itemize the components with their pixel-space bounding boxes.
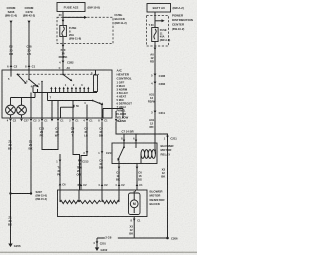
wire label Z1 20 BK left [8, 140, 12, 151]
wire label F20 14 RD/BK [59, 48, 68, 59]
relay name [161, 144, 175, 156]
node BATT A0 feed box [147, 4, 184, 13]
connector C211 pin 3 right [151, 111, 165, 115]
mode switch linkage (dashed) [18, 73, 99, 75]
bottom pin row of control box [7, 119, 122, 123]
wire pin4 to resistor block [81, 122, 88, 191]
wire into fuse 8 [59, 12, 88, 26]
wire to vacuum harness A [56, 154, 66, 190]
ground G206 [8, 244, 21, 248]
relay bottom pins [115, 164, 143, 191]
mode contact bus [33, 86, 97, 101]
resistor R3 [102, 190, 119, 204]
connector C211 row mid [83, 151, 113, 155]
wire label Z1 20 BK mid [29, 140, 33, 151]
interior sub box [103, 109, 123, 119]
illumination lamp L2 [17, 105, 27, 118]
wire from fuse 8 down to control [62, 37, 64, 71]
wire label Z1 20 BK lower [8, 216, 12, 227]
wire label C13 20 PK [39, 126, 45, 137]
mode switch contact 5 [8, 70, 11, 81]
blower resistor element in control [91, 70, 98, 93]
panel lamp feed [11, 93, 36, 106]
blower motor relay K1 box [112, 143, 157, 164]
resistor R2 [79, 190, 101, 204]
wire label A0 12 RD [150, 53, 154, 64]
blend door wiper [62, 70, 72, 81]
fuse F11 40A [152, 28, 171, 42]
mode switch wiper [17, 74, 27, 85]
resistor R1 [60, 190, 79, 204]
illumination lamp L1 [6, 105, 16, 118]
splice S207 [9, 190, 47, 201]
connector C1 pin 8 [25, 64, 35, 68]
motor ground pin [129, 217, 141, 239]
ground bus wire [97, 235, 178, 241]
interior stubs to lower pins [33, 86, 102, 118]
blower motor resistor block box [58, 190, 148, 217]
power distribution center dashed outline [147, 16, 169, 47]
connector row into resistor block [77, 183, 108, 187]
a/c heater control box U1 [2, 70, 112, 118]
relay switch [117, 143, 125, 164]
node FROM S206 label [5, 6, 17, 24]
wire label X3 12 BK right [161, 167, 165, 178]
wire into fuse 11 [149, 12, 165, 28]
blower motor M1 [129, 190, 141, 215]
resistor block name [150, 189, 166, 206]
contact fingers [50, 83, 89, 92]
wire label A31 12 RD/WT [148, 92, 156, 103]
power distribution center name [172, 14, 193, 32]
node FUSE A22 feed box [57, 3, 100, 12]
a/c heater control legend [117, 69, 133, 124]
wire panel lamp ground to G206 [10, 122, 12, 244]
wire from S206 to heater control pin C2 [10, 23, 12, 71]
connector C282 pin 4 right [151, 82, 165, 86]
wire pin8 to resistor block [99, 122, 103, 191]
paper background [0, 0, 197, 255]
wire label A31 12 RD [149, 118, 155, 129]
switch contact numbers [31, 82, 52, 99]
wire to vacuum harness B [71, 122, 89, 191]
fuse F8 20A [60, 26, 81, 41]
wire labels below C211 [78, 158, 103, 169]
ground G202 branch [93, 238, 107, 252]
wire label C28 20 LB [26, 45, 32, 56]
interior lower link [61, 104, 80, 118]
wire U-link pin3 to pin C1 [42, 122, 58, 150]
connector C186 pin 5 [151, 74, 165, 78]
mode switch contact 8 and wiper [26, 70, 39, 87]
wire label E2 20 OR [9, 45, 13, 56]
blower switch wiper [92, 100, 104, 105]
fuse block dashed outline [57, 17, 113, 43]
connector C282 pin 4 [59, 60, 74, 70]
interior drops to bottom pins [31, 81, 58, 118]
wire C7 to relay and down [116, 122, 177, 239]
connector C2 pin 6 [7, 64, 17, 68]
node FROM C279 label [23, 6, 35, 24]
wire from C279 to heater control pin C1 [28, 23, 30, 71]
relay coil [136, 143, 155, 164]
wire from fuse 11 down to relay [154, 42, 156, 144]
relay top pin stubs [121, 134, 137, 143]
wire label C5 20 WT [55, 126, 60, 137]
wire from pin7 to splice S207 [30, 122, 32, 194]
fuse block name [115, 13, 127, 25]
